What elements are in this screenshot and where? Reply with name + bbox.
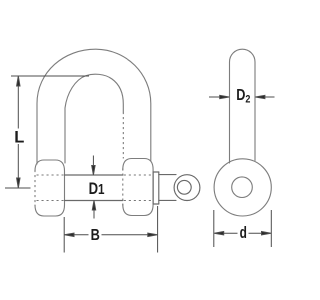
svg-text:L: L [14,128,24,146]
svg-text:D1: D1 [89,179,105,198]
svg-text:d: d [240,224,247,242]
svg-text:B: B [91,227,100,245]
